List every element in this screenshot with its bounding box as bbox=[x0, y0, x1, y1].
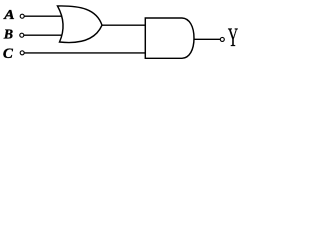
wire OR output to AND input bbox=[102, 24, 146, 26]
AND gate bbox=[145, 18, 194, 58]
terminal circle B bbox=[20, 33, 24, 37]
wire A bbox=[24, 15, 62, 17]
svg-text:C: C bbox=[3, 46, 14, 62]
svg-text:A: A bbox=[3, 7, 15, 22]
wire B bbox=[24, 34, 62, 36]
wire C bbox=[24, 52, 145, 54]
svg-text:B: B bbox=[3, 28, 13, 43]
terminal circle Y bbox=[220, 37, 224, 41]
svg-text:Y: Y bbox=[228, 23, 238, 52]
terminal circle C bbox=[20, 51, 24, 55]
wire AND output bbox=[193, 38, 221, 40]
terminal circle A bbox=[20, 14, 24, 18]
OR gate bbox=[58, 6, 103, 43]
